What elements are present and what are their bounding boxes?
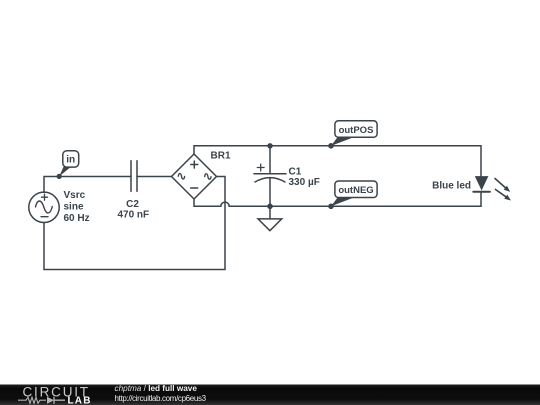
svg-text:C1: C1 [289, 166, 302, 177]
svg-text:outNEG: outNEG [338, 185, 373, 196]
svg-text:Blue led: Blue led [432, 180, 471, 191]
svg-text:http://circuitlab.com/cp6eus3: http://circuitlab.com/cp6eus3 [115, 394, 207, 403]
svg-text:chptma / led full wave: chptma / led full wave [115, 384, 198, 393]
svg-text:sine: sine [64, 201, 84, 212]
svg-text:330 µF: 330 µF [289, 177, 320, 188]
svg-text:C2: C2 [126, 199, 139, 210]
svg-text:outPOS: outPOS [339, 125, 374, 136]
svg-text:Vsrc: Vsrc [64, 190, 86, 201]
svg-text:60 Hz: 60 Hz [64, 213, 90, 224]
svg-text:in: in [66, 155, 75, 166]
svg-text:LAB: LAB [68, 396, 92, 405]
svg-text:BR1: BR1 [211, 151, 231, 162]
svg-text:470 nF: 470 nF [117, 209, 149, 220]
